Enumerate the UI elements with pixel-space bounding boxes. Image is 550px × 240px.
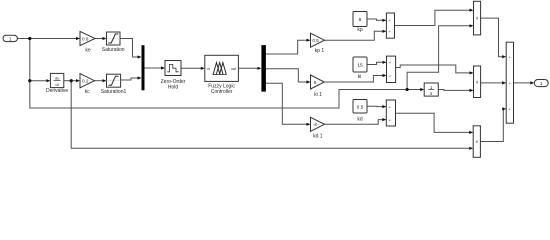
constant kd value 0.5 <box>353 100 367 123</box>
wire mux to Zero-Order Hold <box>145 67 163 69</box>
arrowhead into sum3 in2 <box>382 118 386 121</box>
wire Zero-Order Hold to Fuzzy Logic Controller <box>181 67 202 69</box>
zero-order hold block <box>161 61 186 91</box>
wire input to gain ke <box>17 38 77 40</box>
svg-text:s: s <box>430 91 432 96</box>
gain ki 1 <box>311 75 325 98</box>
svg-text:Saturation: Saturation <box>102 47 125 53</box>
junction node at integrator input <box>406 88 409 91</box>
arrowhead into final sum in3 <box>502 107 506 110</box>
product block product1 <box>474 1 481 35</box>
wire gain ke to Saturation <box>95 38 104 40</box>
arrowhead into Zero-Order Hold <box>161 66 165 69</box>
junction node after derivative <box>70 79 73 82</box>
arrowhead into Fuzzy Logic Controller <box>201 67 205 70</box>
arrowhead into demux <box>257 67 261 70</box>
svg-text:Controller: Controller <box>211 89 233 95</box>
svg-text:Saturation1: Saturation1 <box>101 89 127 95</box>
arrowhead into sum2 in2 <box>383 74 387 77</box>
svg-text:15: 15 <box>357 62 363 68</box>
svg-text:out: out <box>231 67 237 71</box>
gain kc <box>80 74 95 95</box>
wire gain kp 1 to sum1 in2 <box>325 31 384 40</box>
sum block sum3 kd row <box>386 100 395 126</box>
svg-text:1: 1 <box>9 36 12 41</box>
wire sum3 to product3 in1 <box>396 113 471 132</box>
constant kp value 8 <box>353 12 367 33</box>
gain ke <box>80 31 95 53</box>
wire product1 to final sum in1 <box>481 18 504 57</box>
wire demux out1 to gain kp 1 <box>266 40 308 54</box>
arrowhead into mux in2 <box>138 76 142 79</box>
wire de branch down to bottom run to product3 <box>71 81 469 149</box>
wire product3 to final sum in3 <box>480 109 503 142</box>
arrowhead into gain kd 1 <box>307 123 311 126</box>
svg-text:ki: ki <box>358 74 362 80</box>
sum block sum2 ki row <box>387 56 396 82</box>
svg-text:8: 8 <box>314 80 317 85</box>
fuzzy logic controller block <box>205 55 239 95</box>
derivative block <box>46 73 68 94</box>
svg-text:ke: ke <box>85 48 91 54</box>
svg-text:du: du <box>55 75 59 80</box>
wire constant kd to sum3 in1 <box>367 105 384 107</box>
wire constant ki to sum2 in1 <box>367 62 384 64</box>
arrowhead into Derivative <box>46 79 50 82</box>
wire e branch down to bottom run and up to integrator row <box>30 39 421 109</box>
arrowhead into gain kc <box>76 79 80 82</box>
svg-text:8: 8 <box>359 17 362 23</box>
wire Fuzzy Logic Controller to demux <box>238 67 258 69</box>
svg-text:kd: kd <box>357 117 363 123</box>
wire demux out3 to gain kd 1 <box>266 83 308 124</box>
arrowhead into product3 in1 <box>469 131 473 134</box>
arrowhead into gain ke <box>76 37 80 40</box>
svg-text:kc: kc <box>85 89 91 95</box>
arrowhead into Saturation <box>103 37 107 40</box>
arrowhead into gain ki 1 <box>307 80 311 83</box>
wire gain kd 1 to sum3 in2 <box>325 120 384 125</box>
saturation block Saturation <box>102 32 125 53</box>
svg-text:1: 1 <box>540 81 543 86</box>
arrowhead into mux in1 <box>138 55 142 58</box>
wire final sum to output port <box>514 82 532 84</box>
svg-text:0.5: 0.5 <box>357 105 364 111</box>
junction node at derivative row split <box>28 79 31 82</box>
wire e branch up to product1 in2 <box>407 26 471 90</box>
svg-text:Hold: Hold <box>168 85 179 91</box>
svg-text:in: in <box>207 67 210 71</box>
arrowhead into product2 in1 <box>470 71 474 74</box>
svg-text:Derivative: Derivative <box>46 88 68 94</box>
arrowhead into sum3 in1 <box>382 105 386 108</box>
arrowhead into gain kp 1 <box>307 39 311 42</box>
arrowhead into product1 in1 <box>470 9 474 12</box>
junction node at input split <box>28 37 31 40</box>
wire constant kp to sum1 in1 <box>367 19 384 20</box>
arrowhead into Saturation1 <box>103 79 107 82</box>
svg-text:kp: kp <box>357 27 363 33</box>
input port 1 <box>3 35 17 41</box>
mux bar <box>142 45 145 90</box>
wire demux out2 to gain ki 1 <box>266 69 308 82</box>
svg-text:0.2: 0.2 <box>82 79 89 84</box>
arrowhead into sum2 in1 <box>383 61 387 64</box>
product block product3 <box>473 126 480 158</box>
output port 1 <box>534 80 548 87</box>
saturation block Saturation1 <box>101 74 127 95</box>
arrowhead into product1 in2 <box>470 24 474 27</box>
integrator block 1/s <box>424 83 438 96</box>
final sum block <box>506 42 513 123</box>
svg-text:kd 1: kd 1 <box>313 133 323 139</box>
wire derivative out to gain kc <box>64 80 77 82</box>
svg-text:0.8: 0.8 <box>82 36 89 41</box>
gain kp 1 <box>311 33 325 54</box>
svg-text:ki 1: ki 1 <box>314 92 322 98</box>
arrowhead into output port <box>530 81 534 84</box>
wire sum2 to product2 in1 <box>396 65 471 73</box>
constant ki value 15 <box>353 57 367 80</box>
wire derivative row input <box>30 80 47 82</box>
wire product2 to final sum in2 <box>481 82 504 84</box>
wire integrator to product2 in2 <box>438 89 471 92</box>
arrowhead into product3 in2 <box>469 147 473 150</box>
wire sum1 to product1 in1 <box>395 10 471 25</box>
wire Saturation1 to mux in2 <box>121 78 139 80</box>
svg-text:0.5: 0.5 <box>312 38 319 43</box>
svg-text:-K-: -K- <box>313 122 319 127</box>
svg-text:kp 1: kp 1 <box>315 48 325 54</box>
gain kd 1 <box>311 117 325 139</box>
wire gain ki 1 to sum2 in2 <box>324 76 384 83</box>
sum block sum1 kp row <box>386 13 394 38</box>
wire Saturation to mux in1 <box>120 39 139 58</box>
arrowhead into sum1 in1 <box>382 19 386 22</box>
arrowhead into product2 in2 <box>470 89 474 92</box>
arrowhead into integrator <box>420 88 424 91</box>
product block product2 <box>474 66 481 98</box>
arrowhead into sum1 in2 <box>382 30 386 33</box>
arrowhead into final sum in1 <box>502 55 506 58</box>
wire gain kc to Saturation1 <box>95 80 104 82</box>
arrowhead into final sum in2 <box>502 81 506 84</box>
demux bar <box>261 45 266 92</box>
